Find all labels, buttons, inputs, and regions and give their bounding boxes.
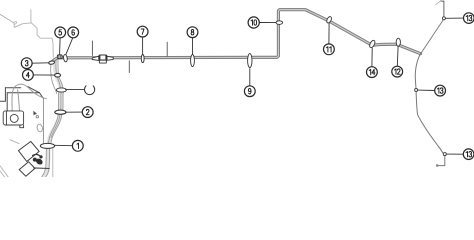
union dark caps bbox=[99, 55, 101, 60]
ring fitting (item 10) bbox=[276, 21, 283, 25]
leader 14 bbox=[371, 48, 373, 66]
open callout circle (no number) bbox=[84, 86, 94, 95]
number 6 bbox=[72, 30, 75, 35]
number 8 bbox=[191, 30, 194, 35]
leader 8 bbox=[192, 38, 194, 55]
pump box bbox=[3, 111, 23, 128]
callout 8 bbox=[187, 27, 198, 38]
leader 12 bbox=[396, 46, 399, 66]
callout 10 bbox=[248, 17, 259, 28]
leader unnumbered bbox=[66, 89, 85, 91]
rear hose upper bbox=[415, 54, 420, 89]
callout 1 bbox=[72, 140, 83, 151]
relay box right edge bbox=[42, 99, 44, 149]
oval fitting (item 12) bbox=[396, 38, 400, 46]
main tube inner highlight bbox=[53, 10, 421, 62]
item 1 oval bbox=[40, 143, 54, 148]
rear section: vertical line top right bbox=[443, 1, 445, 17]
rear elbow end dot bbox=[436, 164, 439, 167]
tube bundle left line bbox=[42, 59, 61, 177]
number 4 bbox=[26, 72, 29, 77]
number 14 bbox=[369, 69, 375, 74]
oval fitting (item 8) bbox=[191, 55, 195, 67]
leader 6 bbox=[66, 38, 73, 54]
leader 3 bbox=[32, 62, 48, 64]
bracket dark fitting c bbox=[39, 155, 42, 158]
leader 13 top bbox=[445, 17, 463, 19]
tube bundle middle line bbox=[51, 92, 61, 137]
node for 13 top bbox=[442, 17, 445, 20]
tube bundle gray band bbox=[44, 60, 61, 178]
number 2 bbox=[86, 109, 89, 114]
callout 3 bbox=[21, 58, 32, 69]
leader 7 bbox=[142, 37, 144, 54]
clamp fitting (item 5) on pipe bbox=[57, 55, 62, 59]
bracket dark fitting a bbox=[33, 158, 37, 162]
body branch vertical bbox=[30, 10, 32, 23]
callout 13 right bottom (clipped) bbox=[463, 149, 474, 160]
oval fitting (item 9) bbox=[248, 54, 252, 68]
panel arrow mark bbox=[33, 111, 37, 115]
oval fitting (item 14) bbox=[369, 39, 376, 48]
tube from fitting 3 down bbox=[51, 64, 57, 93]
item 4 oval bbox=[55, 73, 61, 77]
number 13 bbox=[437, 88, 443, 93]
oval fitting (item 6) bbox=[63, 54, 68, 62]
callout 9 bbox=[244, 86, 255, 97]
leader 5 bbox=[59, 38, 62, 54]
number 7 bbox=[141, 29, 144, 34]
unnumbered oval bbox=[56, 88, 66, 92]
main tube outer bbox=[53, 10, 421, 62]
callout 14 bbox=[367, 67, 378, 78]
number 5 bbox=[59, 30, 62, 35]
tube over box bbox=[12, 84, 47, 111]
callout 13 right top (clipped) bbox=[464, 13, 474, 24]
number 10 bbox=[251, 20, 257, 25]
tube bundle right line bbox=[46, 59, 64, 177]
number 1 bbox=[77, 143, 79, 148]
leader 13 mid bbox=[418, 89, 435, 91]
callout 2 bbox=[82, 107, 93, 118]
tick below pipe at x130 bbox=[128, 61, 130, 73]
number 11 bbox=[326, 47, 331, 52]
number 13 right top bbox=[466, 15, 472, 20]
leader 9 bbox=[249, 69, 251, 86]
number 9 bbox=[248, 89, 251, 94]
callout circles bbox=[21, 13, 474, 160]
bracket small tilted rect bbox=[19, 162, 35, 176]
ovals on bundle: item 3 bbox=[48, 61, 54, 65]
panel small circle bbox=[36, 116, 38, 118]
callout 13 bbox=[435, 85, 446, 96]
callout 12 bbox=[392, 66, 403, 77]
callout 11 bbox=[324, 44, 335, 55]
node for 13 bottom bbox=[443, 153, 446, 156]
body panel lines bottom-left bbox=[0, 140, 53, 177]
leader 2 bbox=[66, 111, 83, 113]
node for 13 mid bbox=[415, 89, 418, 92]
number 13 right bottom bbox=[466, 152, 472, 157]
callout 7 bbox=[137, 26, 148, 37]
oval fitting (item 11) bbox=[326, 16, 333, 24]
leader 10 bbox=[259, 22, 276, 24]
number 3 bbox=[25, 61, 28, 66]
leader 4 bbox=[33, 74, 54, 76]
bracket hose curve bbox=[33, 154, 42, 157]
bracket big tilted rect bbox=[18, 141, 39, 161]
leader 1 bbox=[54, 144, 72, 146]
panel hole oval bbox=[36, 124, 43, 133]
oval fitting (item 7) bbox=[141, 55, 144, 63]
leader 13 bottom bbox=[446, 153, 463, 155]
callout 6 bbox=[68, 27, 79, 38]
tick above pipe at x168 bbox=[166, 42, 168, 56]
rear jog at top bbox=[440, 0, 444, 2]
rear elbow bbox=[439, 156, 445, 166]
callout 4 bbox=[23, 70, 34, 81]
tube into box bbox=[18, 90, 20, 111]
item 2 oval bbox=[55, 110, 66, 114]
union connector block on pipe bbox=[92, 55, 113, 63]
bracket bottom line bbox=[34, 167, 49, 170]
number 12 bbox=[395, 69, 401, 74]
rear hose lower bbox=[416, 92, 443, 154]
callout 5 bbox=[55, 27, 66, 38]
relay box outline bbox=[0, 87, 43, 111]
tick above pipe at x92 bbox=[91, 41, 93, 55]
rear diagonal line bbox=[421, 20, 444, 54]
bracket dark fitting b bbox=[35, 157, 44, 165]
leader 11 bbox=[328, 23, 330, 44]
body outline top-left zigzag bbox=[0, 10, 53, 57]
